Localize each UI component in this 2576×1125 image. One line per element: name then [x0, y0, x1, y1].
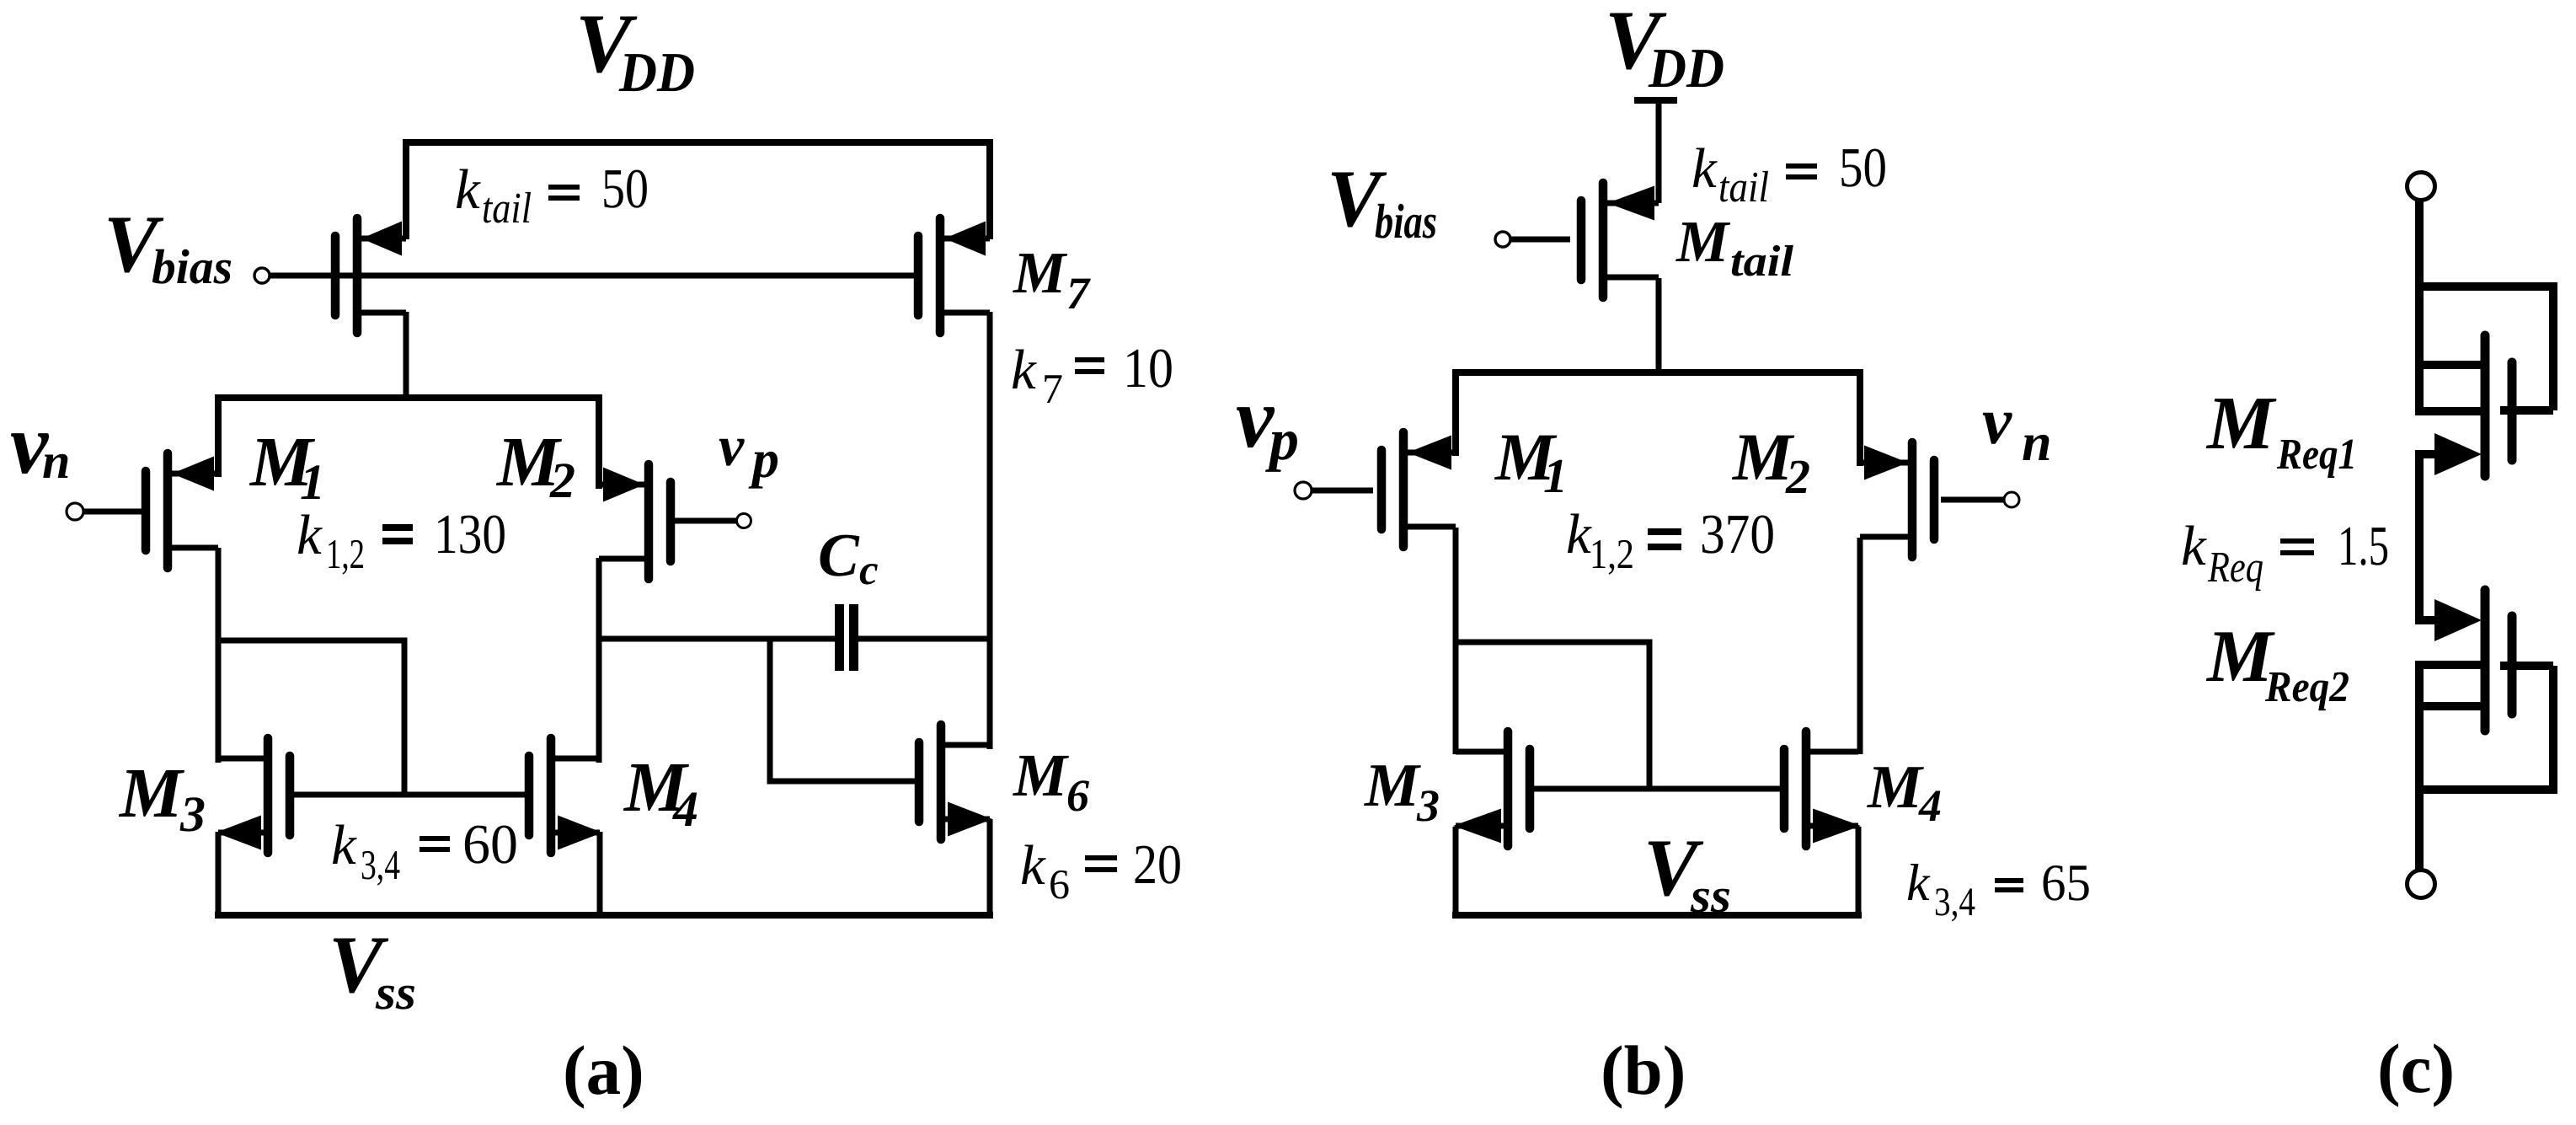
equals sign k_1,2 (b) — [1648, 528, 1681, 535]
wire current mirror gate line (a) — [290, 792, 529, 798]
Vbias terminal circle (b) — [1495, 232, 1510, 247]
svg-text:Req: Req — [2207, 544, 2263, 592]
svg-text:v: v — [719, 414, 745, 478]
svg-text:4: 4 — [672, 781, 698, 837]
transistor M2a gate bar — [666, 482, 676, 561]
transistor M7 bottom lead — [940, 310, 990, 316]
transistor M1b gate bar — [1377, 450, 1387, 529]
transistor M1b top lead — [1403, 450, 1456, 456]
equals sign k_3,4 (b) — [1995, 878, 2023, 883]
svg-text:60: 60 — [462, 813, 518, 876]
svg-text:v: v — [1982, 385, 2012, 458]
svg-text:ss: ss — [375, 965, 416, 1020]
transistor Mtail-b channel bar — [1599, 183, 1608, 297]
svg-text:6: 6 — [1049, 860, 1070, 908]
svg-text:M: M — [1867, 753, 1924, 821]
svg-text:Req1: Req1 — [2276, 431, 2357, 479]
transistor M3b bottom lead — [1456, 823, 1508, 829]
wire MReq2 diode connection bottom branch (c) — [2419, 666, 2553, 790]
svg-text:k: k — [1566, 503, 1592, 565]
transistor M1a PMOS source arrow — [172, 457, 214, 491]
wire tail drain to diff rail (a) — [404, 312, 409, 401]
svg-text:1: 1 — [300, 454, 325, 510]
wire M1 drain to M3 (a) — [216, 548, 222, 763]
svg-text:1,2: 1,2 — [1590, 530, 1634, 577]
wire Vbias line (a) — [270, 273, 914, 279]
wire VDD to Mtail source (b) — [1656, 100, 1662, 203]
wire differential pair source rail (a) — [218, 398, 599, 489]
VDD supply bar (b) — [1634, 97, 1677, 104]
wire MReq1 drain stub (c) — [2415, 361, 2481, 369]
svg-text:1.5: 1.5 — [2338, 515, 2389, 577]
svg-text:1,2: 1,2 — [326, 530, 365, 577]
transistor M4a gate bar — [525, 756, 534, 835]
transistor M6 top lead — [941, 742, 990, 748]
equals sign k_3,4 (a) — [420, 836, 450, 841]
svg-text:k: k — [297, 504, 323, 566]
svg-text:(b): (b) — [1601, 1031, 1686, 1109]
vn terminal circle (a) — [67, 503, 83, 520]
transistor M2a channel bar — [644, 464, 654, 579]
svg-text:ss: ss — [1690, 868, 1731, 923]
wire Cc to output node (a) — [858, 636, 990, 642]
Vbias terminal circle (a) — [254, 268, 270, 283]
capacitor Cc right plate — [849, 604, 858, 671]
svg-text:20: 20 — [1133, 833, 1182, 896]
wire Vbias gate lead (b) — [1510, 237, 1570, 243]
transistor Mtail-b PMOS source arrow — [1607, 186, 1654, 221]
wire MReq1 diode connection top branch (c) — [2419, 287, 2553, 410]
transistor M3a top lead — [218, 756, 268, 762]
svg-text:3,4: 3,4 — [361, 841, 400, 888]
svg-text:7: 7 — [1066, 268, 1091, 319]
svg-text:(a): (a) — [563, 1031, 644, 1109]
wire output node vertical (a) — [987, 312, 993, 749]
transistor M3a channel bar — [264, 738, 273, 853]
equals sign k_6 (a) — [1085, 855, 1117, 860]
svg-text:50: 50 — [601, 158, 649, 220]
transistor M4a channel bar — [547, 738, 556, 853]
transistor M2b channel bar — [1908, 442, 1917, 557]
transistor M4a bottom lead — [551, 830, 600, 836]
wire M6 source to Vss (a) — [987, 819, 993, 919]
equals sign k_tail (b) — [1786, 163, 1817, 169]
svg-text:Req2: Req2 — [2264, 663, 2349, 711]
transistor M6 gate bar — [915, 742, 924, 822]
wire M1 drain to M3 (b) — [1453, 528, 1459, 754]
svg-text:130: 130 — [434, 503, 506, 565]
transistor M4b bottom lead — [1806, 823, 1858, 829]
equals sign k_1,2 (a) — [382, 524, 413, 531]
transistor M1b PMOS source arrow — [1408, 436, 1451, 470]
transistor M6 bottom lead — [941, 817, 990, 822]
svg-text:370: 370 — [1700, 503, 1775, 565]
svg-text:65: 65 — [2041, 854, 2091, 912]
transistor M6 NMOS source arrow — [948, 802, 992, 837]
transistor M3a NMOS source arrow — [216, 816, 261, 850]
transistor Mtail-a bottom lead — [357, 310, 406, 316]
wire M2 drain to M4 (b) — [1857, 538, 1863, 754]
wire M3 source to Vss (a) — [216, 832, 222, 919]
wire MReq2 source lead (c) — [2415, 616, 2443, 624]
wire differential pair source rail (b) — [1456, 372, 1860, 466]
svg-text:4: 4 — [1918, 780, 1942, 831]
wire top terminal to MReq1 (c) — [2415, 200, 2424, 415]
svg-text:2: 2 — [1785, 449, 1810, 504]
svg-text:n: n — [2022, 412, 2052, 472]
transistor M7 channel bar — [936, 218, 945, 333]
transistor M7 top lead — [940, 236, 990, 242]
wire vn gate lead (a) — [83, 509, 143, 515]
transistor M1a gate bar — [142, 471, 151, 550]
svg-text:M: M — [1675, 210, 1731, 275]
wire M3 source to Vss (b) — [1453, 827, 1459, 919]
vp terminal circle (b) — [1295, 482, 1312, 499]
svg-text:k: k — [1011, 339, 1037, 401]
wire MReq1 lower stub (c) — [2415, 407, 2481, 415]
wire MReq1 source lead (c) — [2415, 450, 2443, 458]
svg-text:M: M — [2205, 382, 2277, 465]
transistor Mtail-b bottom lead — [1603, 275, 1659, 281]
transistor MReq1 gate bar (c) — [2508, 362, 2517, 460]
transistor M6 channel bar — [937, 725, 946, 839]
wire MReq2 to bottom terminal (c) — [2415, 661, 2424, 871]
wire vp gate lead (b) — [1312, 488, 1373, 494]
transistor M2a bottom lead — [599, 556, 649, 562]
transistor M4a top lead — [551, 756, 600, 762]
transistor M4b top lead — [1806, 749, 1858, 755]
svg-text:k: k — [331, 814, 357, 876]
wire Vss rail (a) — [215, 912, 993, 919]
svg-text:tail: tail — [1718, 163, 1769, 212]
svg-text:1: 1 — [1543, 448, 1568, 503]
svg-text:k: k — [2181, 515, 2207, 577]
transistor M4b channel bar — [1802, 731, 1811, 846]
transistor Mtail-a PMOS source arrow — [361, 222, 402, 256]
svg-text:bias: bias — [1375, 194, 1437, 249]
transistor M4a NMOS source arrow — [558, 816, 602, 850]
wire MReq1 to MReq2 (c) — [2415, 450, 2424, 624]
equals sign k_Req (c) — [2280, 538, 2314, 544]
wire MReq2 gate lead (c) — [2500, 662, 2553, 670]
wire first stage output to Cc (a) — [599, 636, 835, 642]
svg-text:DD: DD — [1648, 37, 1724, 99]
transistor M1a top lead — [168, 471, 218, 477]
wire M2 drain to M4 (a) — [596, 558, 602, 763]
wire vp gate lead (a) — [674, 518, 737, 524]
transistor M2a top lead — [599, 482, 649, 488]
transistor M3b top lead — [1456, 749, 1508, 755]
svg-text:tail: tail — [482, 185, 532, 233]
transistor MReq2 source arrow (c) — [2434, 599, 2482, 641]
transistor Mtail-a top lead — [357, 236, 406, 242]
capacitor Cc left plate — [835, 604, 844, 671]
transistor MReq2 gate bar (c) — [2508, 616, 2517, 714]
svg-text:3: 3 — [179, 786, 206, 842]
wire MReq1 gate lead (c) — [2500, 406, 2553, 415]
svg-text:p: p — [1265, 408, 1299, 473]
svg-text:6: 6 — [1066, 770, 1089, 821]
vn terminal circle (b) — [2004, 492, 2019, 507]
transistor Mtail-a gate bar — [331, 236, 340, 315]
equals sign k_tail (a) — [548, 185, 580, 190]
transistor M1a channel bar — [163, 453, 173, 568]
transistor M3a gate bar — [286, 756, 295, 835]
wire mirror gate branch (a) — [218, 640, 404, 795]
wire M6 gate drop (a) — [770, 639, 915, 781]
svg-text:(c): (c) — [2377, 1030, 2455, 1107]
transistor MReq1 channel bar (c) — [2481, 335, 2490, 476]
svg-text:7: 7 — [1042, 365, 1063, 412]
transistor M3b NMOS source arrow — [1453, 809, 1501, 844]
transistor MReq1 source arrow (c) — [2434, 433, 2482, 475]
svg-text:50: 50 — [1839, 137, 1887, 199]
svg-text:k: k — [1906, 854, 1931, 912]
transistor M7 gate bar — [914, 236, 923, 315]
svg-text:bias: bias — [152, 239, 232, 294]
svg-text:3,4: 3,4 — [1934, 880, 1975, 924]
svg-text:M: M — [1364, 751, 1421, 819]
wire Vss rail (b) — [1452, 912, 1862, 919]
transistor Mtail-b gate bar — [1577, 201, 1586, 280]
transistor MReq2 channel bar (c) — [2481, 590, 2490, 731]
wire vn gate lead (b) — [1941, 497, 2005, 503]
svg-text:DD: DD — [618, 41, 695, 104]
transistor M2b gate bar — [1930, 460, 1939, 539]
svg-text:n: n — [42, 433, 70, 489]
svg-text:k: k — [455, 158, 481, 221]
transistor M2b top lead — [1860, 460, 1912, 466]
wire M4 source to Vss (b) — [1856, 827, 1862, 919]
svg-text:M: M — [1013, 742, 1070, 809]
svg-text:p: p — [748, 429, 779, 489]
wire Mtail drain to diff rail (b) — [1656, 278, 1662, 376]
circuit (a) VDD rail — [406, 142, 990, 239]
transistor M3b gate bar — [1526, 749, 1535, 828]
transistor M7 PMOS source arrow — [944, 222, 986, 256]
wire mirror gate branch (b) — [1456, 642, 1649, 789]
transistor M2b PMOS source arrow — [1864, 446, 1908, 480]
vp terminal circle (a) — [737, 514, 751, 528]
transistor M3a bottom lead — [218, 830, 268, 836]
transistor M1b bottom lead — [1403, 524, 1456, 530]
wire current mirror gate line (b) — [1530, 786, 1784, 792]
svg-text:k: k — [1020, 834, 1046, 897]
transistor M1b channel bar — [1399, 432, 1408, 547]
wire M4 source to Vss (a) — [597, 832, 603, 919]
transistor M2a PMOS source arrow — [603, 468, 644, 502]
svg-text:M: M — [1013, 241, 1068, 306]
svg-text:3: 3 — [1416, 780, 1440, 831]
svg-text:2: 2 — [549, 453, 575, 508]
svg-text:10: 10 — [1123, 337, 1173, 399]
bottom terminal circle (c) — [2408, 871, 2435, 898]
svg-text:k: k — [1692, 137, 1718, 200]
svg-text:M: M — [118, 754, 185, 833]
wire MReq2 drain stub (c) — [2415, 702, 2481, 710]
transistor M2b bottom lead — [1860, 534, 1912, 540]
transistor M4b NMOS source arrow — [1813, 809, 1861, 844]
transistor M3b channel bar — [1504, 731, 1513, 846]
svg-text:C: C — [818, 521, 860, 589]
svg-text:c: c — [859, 547, 879, 594]
transistor Mtail-b top lead — [1603, 201, 1659, 206]
transistor M1a bottom lead — [168, 545, 218, 551]
transistor Mtail-a channel bar — [353, 218, 362, 333]
svg-text:tail: tail — [1730, 238, 1794, 286]
equals sign k_7 (a) — [1075, 357, 1104, 362]
transistor M4b gate bar — [1780, 749, 1789, 828]
wire MReq2 upper stub (c) — [2415, 661, 2481, 669]
top terminal circle (c) — [2408, 173, 2435, 201]
